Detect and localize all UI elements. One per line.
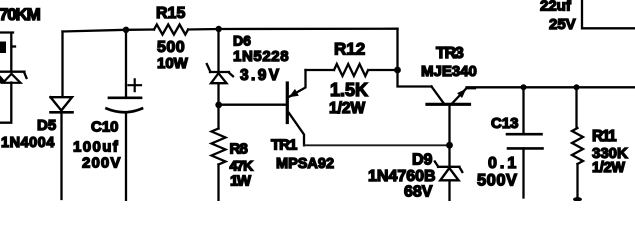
svg-text:1/2W: 1/2W	[329, 100, 366, 117]
TR1 emitter wire	[289, 70, 306, 97]
svg-text:R8: R8	[230, 141, 248, 158]
wire top rail right segment	[188, 28, 397, 31]
svg-text:70KM: 70KM	[0, 5, 41, 24]
svg-text:C10: C10	[91, 119, 119, 136]
svg-text:MJE340: MJE340	[421, 63, 477, 80]
svg-text:1N5228: 1N5228	[233, 48, 289, 65]
wire C10 column bottom	[125, 113, 127, 202]
wire C13 column top	[522, 87, 524, 133]
svg-text:3.9V: 3.9V	[240, 67, 282, 84]
svg-text:1.5K: 1.5K	[330, 80, 368, 100]
resistor R15	[154, 25, 188, 35]
wire left column down	[0, 83, 11, 123]
svg-text:1W: 1W	[230, 173, 252, 190]
wire D6 column top	[217, 29, 219, 71]
svg-text:25V: 25V	[549, 16, 576, 33]
wire D9 bottom	[448, 181, 450, 202]
node R11 bottom terminal	[573, 197, 582, 201]
node junction C13 top	[521, 84, 527, 90]
resistor R11	[572, 128, 583, 164]
wire C13 column bottom	[522, 148, 524, 197]
TR3 emitter wire	[453, 88, 476, 103]
svg-text:R15: R15	[156, 5, 185, 22]
capacitor C10	[109, 96, 141, 99]
transistor Q TR3 bar	[427, 103, 470, 106]
svg-text:100uf: 100uf	[73, 139, 119, 156]
diode D5 1N4004	[51, 97, 73, 110]
svg-text:22uf: 22uf	[540, 0, 572, 15]
wire R11 bottom	[576, 164, 578, 199]
wire D5 column bottom	[60, 112, 62, 199]
TR3 base wire	[448, 106, 450, 146]
capacitor C13	[507, 133, 542, 136]
svg-text:D6: D6	[233, 33, 251, 49]
transistor Q TR1 bar	[286, 83, 289, 123]
TR1 emitter arrowhead	[289, 89, 299, 97]
svg-text:0.1: 0.1	[488, 155, 519, 172]
wire top right capacitor branch	[582, 0, 635, 28]
wire R11 column top	[575, 87, 577, 128]
svg-text:47K: 47K	[230, 158, 254, 174]
svg-text:10W: 10W	[157, 55, 189, 72]
wire output rail	[467, 86, 635, 88]
svg-text:C13: C13	[491, 115, 519, 132]
TR1 collector wire	[289, 113, 304, 145]
svg-text:200V: 200V	[82, 155, 121, 172]
svg-text:1/2W: 1/2W	[592, 160, 625, 176]
wire TR1 base	[220, 104, 285, 106]
zener diode D6 1N5228	[207, 64, 233, 76]
svg-text:MPSA92: MPSA92	[276, 156, 334, 172]
TR3 emitter arrowhead	[457, 89, 466, 98]
box partial component at left edge	[0, 33, 13, 71]
wire C10 column top	[125, 30, 127, 97]
node junction R12 right	[394, 67, 401, 74]
zener diode D9 1N4760B	[435, 162, 463, 173]
wire TR1 collector to D9 node	[304, 144, 450, 146]
svg-text:500V: 500V	[477, 172, 518, 190]
wire D9 top	[448, 145, 450, 165]
svg-text:68V: 68V	[404, 184, 433, 201]
svg-text:TR3: TR3	[436, 45, 464, 62]
wire R12 left	[306, 69, 335, 71]
wire D6 to base junction	[217, 84, 219, 108]
TR3 collector wire	[432, 87, 444, 104]
svg-text:1N4004: 1N4004	[1, 135, 55, 151]
wire top rail left segment	[63, 30, 155, 32]
svg-text:500: 500	[157, 39, 185, 56]
svg-text:1N4760B: 1N4760B	[368, 168, 436, 185]
wire vertical feed to TR3	[398, 29, 432, 87]
svg-text:R11: R11	[592, 128, 617, 145]
zener diode left edge unnamed	[0, 72, 27, 78]
node junction D6 top	[216, 26, 222, 32]
node junction R11 top	[574, 84, 580, 90]
node junction TR1 base / D6	[215, 102, 222, 109]
wire base junction to R8	[217, 107, 219, 129]
svg-text:TR1: TR1	[271, 137, 297, 154]
capacitor C10 plus sign	[129, 79, 142, 91]
wire D5 column top	[61, 32, 63, 97]
resistor R12	[334, 64, 368, 76]
svg-text:D9: D9	[412, 152, 433, 169]
wire R8 bottom	[217, 165, 219, 202]
svg-text:D5: D5	[37, 117, 56, 134]
svg-text:R12: R12	[334, 40, 365, 59]
node junction TR3 base / D9	[446, 142, 453, 149]
resistor R8	[212, 129, 226, 165]
node junction C10 top	[123, 27, 129, 33]
wire R12 right	[370, 69, 398, 71]
